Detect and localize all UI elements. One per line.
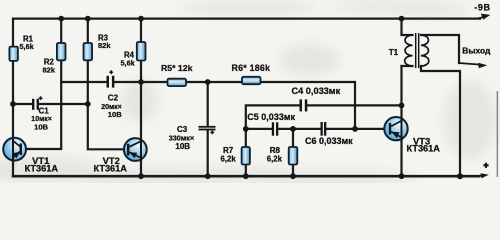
- svg-text:10В: 10В: [108, 110, 122, 119]
- wire T1 primary bottom lead: [402, 65, 413, 67]
- node top bus T1 junction: [399, 16, 405, 22]
- svg-text:R5* 12k: R5* 12k: [161, 63, 193, 73]
- wire main line left of C2: [61, 81, 106, 83]
- svg-text:R6* 186k: R6* 186k: [232, 63, 271, 73]
- svg-text:C1: C1: [39, 107, 50, 116]
- node C1 R3 junction: [85, 101, 91, 107]
- svg-text:КТ361А: КТ361А: [94, 164, 128, 174]
- resistor R4: [121, 42, 146, 68]
- resistor R6: [232, 63, 271, 84]
- svg-text:C4 0,033мк: C4 0,033мк: [292, 86, 341, 96]
- transformer T1: [389, 33, 429, 68]
- svg-text:C6 0,033мк: C6 0,033мк: [305, 136, 353, 146]
- resistor R8: [267, 146, 298, 164]
- wire main line R5 to R6: [186, 81, 242, 83]
- resistor R1: [9, 35, 34, 61]
- svg-text:10В: 10В: [175, 142, 190, 151]
- node C1 left rail junction: [10, 101, 16, 107]
- node R7 bottom junction: [243, 173, 249, 179]
- svg-text:C2: C2: [108, 93, 119, 102]
- capacitor C1: [31, 96, 52, 131]
- resistor R2: [43, 43, 66, 74]
- svg-text:Выход: Выход: [462, 46, 491, 56]
- node drop VT3 base junction: [352, 126, 358, 132]
- wire R4 / VT2 collector line: [140, 19, 142, 161]
- svg-text:КТ361А: КТ361А: [25, 164, 59, 174]
- wire T1 primary top lead: [402, 19, 413, 35]
- svg-text:82k: 82k: [43, 65, 56, 74]
- transistor VT1: [3, 138, 58, 174]
- capacitor C2: [101, 70, 122, 119]
- wire R8 bottom: [292, 165, 294, 177]
- svg-text:-9В: -9В: [474, 2, 490, 12]
- wire left rail: [12, 19, 14, 161]
- node VT2 collector main line junction: [138, 79, 144, 85]
- wire C1 right: [39, 103, 88, 105]
- label -9V supply: [474, 2, 490, 19]
- capacitor C5: [247, 112, 295, 136]
- capacitor C3: [169, 125, 216, 151]
- wire R7 bottom: [245, 165, 247, 177]
- transistor VT3: [384, 117, 440, 154]
- label plus bottom right: [479, 163, 489, 179]
- svg-text:Т1: Т1: [389, 48, 399, 57]
- resistor R3: [84, 33, 112, 60]
- wire R7 / C4 left corner: [246, 105, 300, 147]
- wire VT2 emitter: [140, 161, 142, 177]
- T1 core: [416, 33, 419, 68]
- wire R8 top: [292, 129, 294, 147]
- node C4 VT3 collector junction: [399, 103, 405, 109]
- resistor R5: [161, 63, 193, 86]
- node VT2 emitter bottom junction: [138, 173, 144, 179]
- T1 primary winding: [405, 35, 413, 66]
- wire C4 right to VT3 collector: [307, 104, 401, 106]
- node top bus R4 junction: [138, 16, 144, 22]
- node C3 main line junction: [205, 79, 211, 85]
- wire VT3 emitter: [400, 140, 402, 176]
- wire phase line C5-C6 segment: [278, 128, 320, 130]
- node R8 bottom junction: [290, 173, 296, 179]
- wire main line R6 to drop: [261, 82, 355, 129]
- T1 secondary winding: [421, 35, 429, 66]
- node VT3 emitter bottom junction: [399, 173, 405, 179]
- node T1 secondary bottom junction: [457, 173, 463, 179]
- svg-text:6,2k: 6,2k: [221, 154, 237, 163]
- wire T1 secondary top lead to output corner: [421, 35, 459, 63]
- wire top bus: [13, 18, 480, 20]
- wire VT1 emitter to bottom bus: [12, 160, 14, 176]
- svg-text:C5 0,033мк: C5 0,033мк: [247, 112, 295, 122]
- wire C3 line upper: [207, 82, 209, 126]
- transistor VT2: [94, 138, 147, 174]
- wire VT3 collector: [400, 66, 402, 140]
- node R8 C5 C6 junction: [290, 126, 296, 132]
- wire C1 horizontal: [13, 103, 32, 105]
- node C3 bottom junction: [205, 173, 211, 179]
- svg-text:C3: C3: [177, 125, 188, 134]
- capacitor C4: [292, 86, 341, 112]
- wire C3 line lower: [207, 130, 209, 176]
- wire R3 line: [88, 19, 127, 150]
- svg-text:82k: 82k: [98, 41, 111, 50]
- node top bus R3 junction: [85, 16, 91, 22]
- wire phase line C5 segment: [246, 128, 272, 130]
- svg-text:10В: 10В: [34, 123, 48, 132]
- wire bottom bus: [13, 175, 479, 178]
- wire phase line C6 to VT3 base: [326, 128, 389, 130]
- svg-text:5,6k: 5,6k: [121, 59, 136, 68]
- wire T1 secondary bottom lead: [421, 66, 460, 176]
- svg-text:6,2k: 6,2k: [267, 154, 283, 163]
- node top bus R2 junction: [58, 16, 64, 22]
- label output Выход: [459, 46, 491, 68]
- svg-text:5,6k: 5,6k: [20, 42, 35, 51]
- capacitor C6: [305, 122, 353, 146]
- wire main line C2 to R5: [114, 81, 167, 83]
- node R7 C4 C5 junction: [243, 126, 249, 132]
- svg-text:КТ361А: КТ361А: [407, 144, 441, 154]
- resistor R7: [221, 146, 250, 164]
- wire R2 line: [22, 19, 61, 149]
